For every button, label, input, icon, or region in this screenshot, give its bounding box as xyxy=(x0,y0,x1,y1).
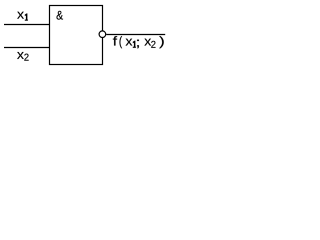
label x1 xyxy=(17,12,28,21)
label f( x1; x2 ) xyxy=(113,36,164,48)
wire output xyxy=(106,34,165,36)
inversion bubble xyxy=(99,31,106,38)
background xyxy=(0,0,170,70)
& function symbol xyxy=(57,11,64,20)
NAND gate U1 body xyxy=(50,6,103,65)
wire input x2 xyxy=(4,47,50,49)
wire input x1 xyxy=(4,24,50,26)
label x2 xyxy=(17,52,29,61)
